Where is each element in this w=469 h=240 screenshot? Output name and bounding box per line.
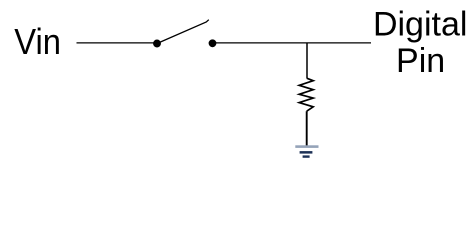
svg-text:Vin: Vin [14,23,61,63]
svg-text:Digital: Digital [373,6,467,44]
svg-text:Pin: Pin [396,42,445,80]
